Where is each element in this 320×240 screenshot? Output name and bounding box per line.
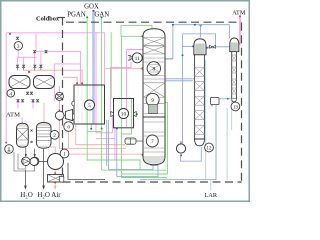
small pot [211,98,220,105]
svg-text:13: 13 [233,106,239,111]
pure argon column 13 [211,38,240,111]
svg-text:GOX: GOX [84,4,99,11]
wire pink booster feed [53,64,55,101]
subcooler circle 10 (top) [119,109,129,119]
svg-text:11: 11 [135,57,140,62]
wire red main air feed [69,153,144,155]
wire blue bottoms to HP column [117,128,158,177]
svg-text:H₂O: H₂O [20,191,33,199]
svg-text:ATM: ATM [6,111,20,118]
HP column [143,117,165,165]
wire green column top [121,26,152,37]
svg-text:12: 12 [207,147,213,152]
coldbox boundary left [62,18,64,183]
separator drum [125,138,136,144]
packing X sections [143,38,165,114]
wire blue LP column double takeoff [165,58,173,60]
crude argon column condenser head [194,39,214,152]
adsorber valves bottom [17,50,47,102]
adsorber valves top [16,65,42,70]
svg-text:9: 9 [151,98,154,104]
wire blue top network to argon condensers [173,25,230,39]
water drain arrows [24,149,44,189]
heater circle 3 [9,33,23,50]
svg-text:LAR: LAR [205,192,218,199]
subcooler E10 [111,99,136,128]
main heat exchanger E5 [74,85,105,124]
main air compressor 1 [30,149,69,169]
wire red compressor to DCAC [48,144,55,153]
chilled water pumps [14,148,39,172]
coldbox boundary top [66,21,242,23]
wire green PGAN [87,17,140,170]
wire pink turbine-11 loop [127,49,144,51]
turbine 11 [128,53,142,63]
svg-text:H₂O Air: H₂O Air [37,191,61,199]
outer frame [1,1,250,202]
svg-text:7: 7 [151,139,154,145]
wire blue argon feed [165,79,197,82]
condenser valve pair [210,45,216,48]
wire blue pot to column 13 [219,98,232,100]
wire pink ATM vent left vertical [5,33,7,143]
circle 8 [147,62,160,75]
circle 9 / condenser [146,93,159,106]
molecular sieve adsorber B [34,76,55,89]
wire red air to column [105,68,143,70]
wire pink adsorber header [17,56,36,58]
wire cyan LAR line [205,60,207,180]
svg-text:ATM: ATM [232,10,246,17]
coldbox boundary bottom [63,181,242,183]
wire pink chiller vent to ATM [21,118,23,124]
wire pink-red turbine air line [111,62,132,114]
heat exchanger circle 5 (top) [85,100,95,110]
wire red dry air to HX [24,70,83,84]
wire GOX wide band [92,11,95,125]
HX side nozzle [72,101,74,106]
wire red compressor train [58,101,60,111]
wire blue argon pump loop [140,105,216,180]
svg-text:PGAN: PGAN [67,12,86,19]
DCAC tower with circle 2 [37,123,59,149]
wire red air inlet [54,170,56,175]
crude argon column body [195,55,205,139]
coldbox boundary right [241,23,243,182]
svg-text:Coldbox: Coldbox [36,15,60,22]
wire pink long top header [6,33,104,84]
wire magenta ATM right [239,16,241,44]
svg-text:10: 10 [121,112,127,118]
wire green GAN [101,17,103,170]
booster compressor + turbine 6 [55,110,73,132]
svg-text:GAN: GAN [94,12,109,19]
wire green to subcooler [110,32,112,99]
air filter [48,175,64,183]
wire blue condenser valves line [208,46,230,48]
molecular sieve adsorber A [9,76,30,89]
argon reflux pump [176,141,185,153]
svg-text:8: 8 [152,66,155,72]
svg-text:5: 5 [88,103,91,109]
water pump circle left [5,145,14,154]
double column: LP column top [143,29,165,117]
instrument box at coldbox corner [59,177,64,183]
wire drain line from compressor [68,163,105,180]
wire pink regen heater loop [36,34,80,85]
wire green GOX from column [122,102,168,174]
wire overlays through exchangers [87,86,131,128]
small transfer valves between towers [31,130,33,144]
wire pink adsorber outlet stubs [17,102,19,109]
chiller tower (evap cooler) [17,123,29,147]
valve circle [55,92,63,100]
circle 4 [7,90,15,98]
